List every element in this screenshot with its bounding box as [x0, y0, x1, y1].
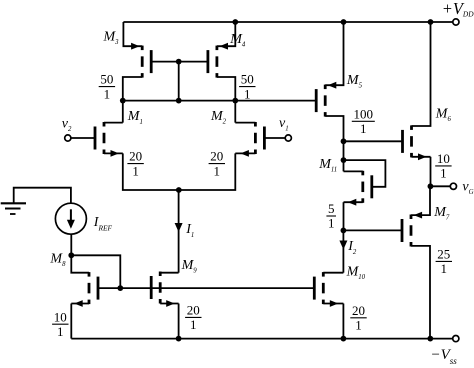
- M3 source lead from +VDD: [123, 22, 142, 46]
- M1 gate lead from v2: [71, 137, 95, 139]
- node dot M11 gate connection: [341, 157, 347, 163]
- node dot differential tail: [176, 187, 182, 193]
- svg-text:20: 20: [210, 149, 223, 164]
- M8 drain lead: [71, 255, 89, 272]
- ground symbol: [1, 202, 26, 204]
- transistor M9 gate bar: [150, 276, 153, 299]
- M5 source arrow (PMOS): [328, 82, 337, 89]
- M4 source lead from +VDD: [217, 22, 235, 46]
- svg-text:100: 100: [354, 106, 374, 121]
- svg-text:50: 50: [241, 72, 254, 87]
- wire gate rail M8-M9-M10: [98, 287, 314, 289]
- ground wire: [14, 188, 71, 204]
- svg-text:1: 1: [355, 318, 362, 333]
- transistor M1 gate bar: [94, 127, 97, 150]
- node dot M10 source at VSS: [341, 336, 347, 342]
- M9 source lead with arrow: [160, 303, 178, 305]
- power terminal -VSS: [453, 336, 459, 342]
- M10 source riser to -VSS: [342, 304, 344, 339]
- wire -VSS bottom rail: [71, 338, 452, 340]
- M1 drain lead: [104, 122, 123, 124]
- transistor M2 gate bar: [263, 127, 266, 150]
- svg-text:1: 1: [104, 86, 111, 101]
- transistor M3 gate bar: [150, 50, 153, 73]
- M11 source riser to I2 node: [343, 202, 345, 230]
- wire I2 riser to M10 drain: [342, 230, 344, 272]
- M7 source lead from vG: [411, 186, 430, 215]
- M6 drain lead from +VDD: [412, 22, 431, 126]
- transistor M10 channel: [322, 272, 325, 277]
- svg-text:1: 1: [440, 166, 447, 181]
- node dot M3 drain / M1 drain: [120, 98, 126, 104]
- M7 source arrow (PMOS): [414, 212, 423, 219]
- M8 source riser to -VSS: [70, 304, 72, 339]
- transistor M6 channel: [410, 125, 413, 129]
- svg-text:1: 1: [214, 163, 221, 178]
- M2 gate lead from v1: [264, 137, 285, 139]
- node dot I2 / M7 gate: [341, 228, 347, 234]
- M3 gate lead to M4 gate: [151, 61, 208, 63]
- transistor M6 gate bar: [401, 130, 404, 153]
- current arrow I2: [339, 241, 347, 250]
- transistor M4 gate bar: [206, 50, 209, 73]
- M5 drain lead: [325, 116, 343, 171]
- M2 source riser to tail node: [179, 153, 236, 190]
- svg-text:1: 1: [328, 216, 335, 231]
- M3 drain lead: [123, 77, 142, 123]
- svg-text:1: 1: [57, 324, 64, 339]
- M6 source riser to vG: [430, 157, 432, 187]
- input terminal v1: [285, 135, 291, 141]
- wire tail current I1 riser: [178, 190, 180, 273]
- svg-text:1: 1: [132, 163, 139, 178]
- transistor M10 gate bar: [313, 277, 316, 300]
- M4 drain lead: [217, 77, 235, 123]
- node dot M7 drain at VSS: [427, 336, 433, 342]
- M2 drain lead: [235, 122, 255, 124]
- M10 source lead with arrow: [323, 303, 343, 305]
- svg-text:1: 1: [244, 86, 251, 101]
- junction dot M6 drain at VDD: [428, 19, 434, 25]
- M11 source lead with arrow: [344, 201, 363, 203]
- svg-text:5: 5: [328, 201, 335, 216]
- transistor M11 gate bar: [370, 175, 373, 198]
- node dot M8 drain / bias: [68, 252, 74, 258]
- current arrow I1: [175, 223, 183, 232]
- wire I2 node to M7 gate: [343, 229, 402, 231]
- transistor M8 gate bar: [97, 277, 100, 300]
- input terminal v2: [65, 135, 71, 141]
- transistor M4 channel: [215, 46, 218, 51]
- node dot gate riser junction: [176, 98, 182, 104]
- M10 drain lead: [323, 272, 343, 274]
- svg-text:20: 20: [187, 303, 200, 318]
- transistor M3 channel: [141, 46, 144, 51]
- junction dot M4 source at VDD: [232, 19, 238, 25]
- M6 source lead with arrow: [412, 156, 431, 158]
- svg-text:10: 10: [437, 151, 450, 166]
- current source IREF: [55, 203, 86, 234]
- M7 drain lead to -VSS: [411, 246, 430, 339]
- M8 source lead with arrow: [71, 303, 89, 305]
- power terminal +VDD: [453, 19, 459, 25]
- node dot M4 drain / M2 drain / M5 gate: [232, 98, 238, 104]
- svg-text:50: 50: [100, 72, 113, 87]
- node dot M9 source at VSS: [176, 336, 182, 342]
- svg-text:1: 1: [441, 261, 448, 276]
- M9 source riser to -VSS: [178, 304, 180, 339]
- M1 source lead with arrow: [104, 152, 123, 154]
- transistor M2 channel: [254, 122, 257, 127]
- M1 source riser to tail node: [123, 153, 179, 190]
- wire bias node to gate rail: [71, 255, 120, 288]
- M5 source lead from +VDD: [325, 22, 343, 85]
- M11 drain lead: [344, 170, 363, 172]
- svg-text:1: 1: [190, 317, 197, 332]
- output terminal vG: [450, 183, 456, 189]
- node dot M3/M4 gates: [176, 59, 182, 65]
- wire current-mirror node row: [123, 100, 316, 102]
- transistor M11 channel: [361, 171, 364, 176]
- wire M5 drain to M6 gate: [344, 140, 403, 142]
- svg-text:1: 1: [360, 121, 367, 136]
- node dot output vG: [428, 183, 434, 189]
- junction dot M5 source at VDD: [341, 19, 347, 25]
- node dot gate rail: [117, 285, 123, 291]
- wire to vG terminal: [430, 185, 450, 187]
- wire +VDD top rail: [123, 21, 452, 23]
- M9 drain lead: [160, 272, 178, 274]
- M4 source arrow (PMOS): [220, 43, 229, 50]
- svg-text:10: 10: [54, 309, 67, 324]
- svg-text:25: 25: [437, 247, 450, 262]
- transistor M1 channel: [103, 122, 106, 127]
- M11 gate lead loop to drain node: [344, 160, 386, 187]
- transistor M7 gate bar: [401, 219, 404, 242]
- wire gate riser M3/M4 to mirror node: [178, 62, 180, 101]
- transistor M7 channel: [410, 215, 413, 220]
- M2 source lead with arrow: [235, 152, 255, 154]
- transistor M5 channel: [324, 85, 327, 90]
- node dot M5 drain to M6 gate: [341, 138, 347, 144]
- wire IREF to M8 drain node: [70, 234, 72, 255]
- transistor M9 channel: [159, 272, 162, 277]
- svg-text:20: 20: [352, 303, 365, 318]
- transistor M5 gate bar: [315, 89, 318, 112]
- svg-text:20: 20: [129, 149, 142, 164]
- M3 source arrow (PMOS): [131, 43, 140, 50]
- transistor M8 channel: [88, 272, 91, 277]
